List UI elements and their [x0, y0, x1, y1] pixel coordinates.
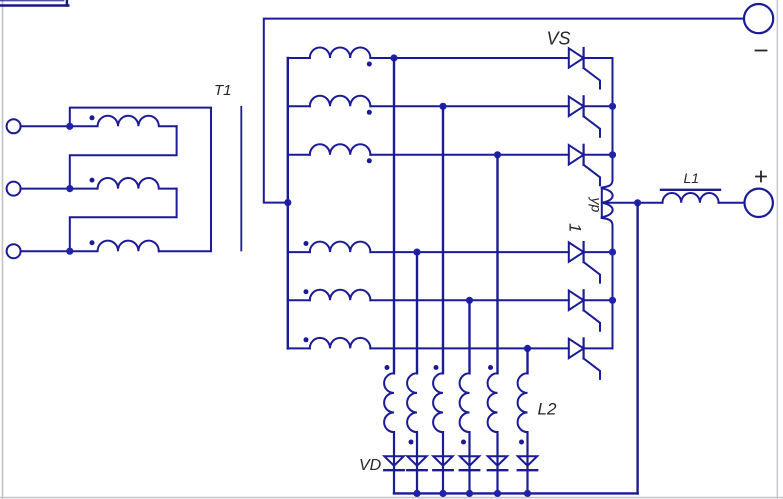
wire tap row 1 down to L2 column: [393, 58, 395, 373]
input terminal A: [7, 119, 21, 133]
interphase reactor lower neck: [602, 218, 613, 226]
polarity dot primary 1: [90, 115, 95, 120]
wire winding 1 to thyristor anode: [370, 57, 568, 59]
node diode VD5 on cathode bus: [494, 490, 501, 497]
node diode VD3 on cathode bus: [439, 490, 446, 497]
thyristor VS2: [569, 96, 600, 137]
svg-text:VD: VD: [359, 457, 382, 474]
wire tap row 6 down to L2 column: [526, 348, 528, 373]
plus sign: [756, 172, 766, 182]
wire L1 to plus terminal: [719, 202, 745, 204]
reactor L2 winding 1: [384, 373, 394, 432]
drawing frame bottom border: [0, 497, 783, 499]
input terminal C: [7, 244, 21, 258]
wire L2-1 to diode VD1: [393, 432, 395, 493]
interphase reactor center bar: [601, 188, 603, 219]
transformer T1 primary winding 3: [70, 241, 159, 252]
polarity dot L2-2: [409, 440, 414, 445]
svg-text:VS: VS: [547, 29, 571, 49]
transformer T1 primary winding 2: [70, 178, 177, 189]
wire thyristor VS2 cathode to bus: [584, 105, 613, 107]
node phase C: [66, 248, 73, 255]
transformer T1 secondary winding 2: [310, 96, 371, 107]
reactor L2 winding 6: [518, 373, 528, 432]
node cathode row 5: [609, 297, 616, 304]
wire L2-5 to diode VD5: [496, 432, 498, 493]
polarity dot secondary 6: [304, 337, 309, 342]
transformer T1 secondary winding 5: [310, 290, 371, 301]
wire secondary winding 3 row: [288, 154, 310, 156]
wire L2-3 to diode VD3: [442, 432, 444, 493]
polarity dot primary 3: [90, 240, 95, 245]
input terminal B: [7, 182, 21, 196]
node phase B: [66, 185, 73, 192]
interphase reactor winding upper half: [602, 188, 613, 202]
polarity dot primary 2: [90, 178, 95, 183]
svg-text:T1: T1: [214, 82, 232, 99]
node diode VD6 on cathode bus: [524, 490, 531, 497]
wire winding 1 return: [70, 126, 177, 188]
polarity dot secondary 1: [367, 62, 372, 67]
thyristor VS4: [569, 242, 600, 283]
polarity dot secondary 3: [367, 158, 372, 163]
transformer T1 primary winding 1: [70, 116, 177, 127]
wire secondary winding 4 row: [288, 251, 310, 253]
transformer T1 secondary winding 4: [310, 242, 371, 253]
polarity dot L2-4: [461, 440, 466, 445]
polarity dot secondary 4: [304, 241, 309, 246]
output terminal minus: [744, 4, 773, 33]
wire secondary winding 1 row: [288, 57, 310, 59]
node tap row 4: [413, 249, 420, 256]
drawing frame right border: [776, 0, 778, 499]
wire thyristor VS4 cathode to bus: [584, 251, 613, 253]
node cathode row 2: [609, 103, 616, 110]
wire secondary winding 6 row: [288, 347, 310, 349]
wire tap row 5 down to L2 column: [468, 300, 470, 373]
node output tap: [634, 199, 641, 206]
thyristor VS1: [569, 48, 600, 89]
node tap row 3: [494, 151, 501, 158]
output terminal plus: [745, 189, 773, 217]
node tap row 2: [439, 103, 446, 110]
wire secondary winding 2 row: [288, 105, 310, 107]
diode VD6: [518, 456, 537, 470]
wire VD return riser: [636, 203, 638, 494]
node tap row 6: [524, 345, 531, 352]
wire thyristor VS1 cathode to bus: [584, 57, 613, 59]
polarity dot L2-6: [519, 440, 524, 445]
wire tap row 3 down to L2 column: [496, 155, 498, 373]
svg-text:L1: L1: [684, 170, 700, 186]
node diode VD4 on cathode bus: [466, 490, 473, 497]
node cathode row 3: [609, 151, 616, 158]
thyristor VS6: [569, 338, 600, 379]
inductor L1: [663, 193, 719, 203]
wire terminal C: [21, 250, 70, 252]
diode VD1: [384, 456, 403, 470]
polarity dot L2-1: [385, 365, 390, 370]
interphase reactor upper neck: [602, 180, 613, 188]
wire winding 4 to thyristor anode: [370, 251, 568, 253]
cathode bus upper group: [612, 58, 614, 180]
wire reactor tap to output: [602, 202, 662, 204]
wire tap row 2 down to L2 column: [442, 106, 444, 373]
svg-text:ур: ур: [589, 197, 605, 213]
polarity dot L2-5: [488, 365, 493, 370]
wire tap row 4 down to L2 column: [416, 252, 418, 373]
polarity dot L2-3: [434, 365, 439, 370]
diode VD2: [407, 456, 426, 470]
minus sign: [756, 50, 767, 52]
wire thyristor VS3 cathode to bus: [584, 154, 613, 156]
wire winding 2 to thyristor anode: [370, 105, 568, 107]
interphase reactor winding lower half: [602, 203, 613, 217]
wire winding 5 to thyristor anode: [370, 299, 568, 301]
node cathode row 4: [609, 249, 616, 256]
wire L2-6 to diode VD6: [526, 432, 528, 493]
svg-text:L2: L2: [538, 400, 557, 419]
node tap row 1: [390, 54, 397, 61]
inductor L1 core bar: [661, 189, 720, 191]
wire VD cathode bus: [394, 492, 638, 494]
wire thyristor VS6 cathode to bus: [584, 347, 613, 349]
node star point: [284, 199, 291, 206]
svg-text:1: 1: [566, 223, 585, 232]
wire winding 2 return: [70, 189, 177, 252]
diode VD3: [433, 456, 452, 470]
polarity dot secondary 2: [367, 110, 372, 115]
wire delta top loop: [70, 108, 211, 252]
wire terminal B: [21, 188, 70, 190]
thyristor VS3: [569, 145, 600, 186]
transformer T1 secondary winding 1: [310, 47, 371, 58]
wire secondary winding 5 row: [288, 299, 310, 301]
transformer T1 secondary winding 6: [310, 338, 371, 348]
transformer T1 secondary winding 3: [310, 144, 371, 155]
reactor L2 winding 2: [407, 373, 417, 432]
wire winding 6 to thyristor anode: [370, 347, 568, 349]
thyristor VS5: [569, 290, 600, 331]
wire negative rail: [264, 19, 744, 203]
reactor L2 winding 3: [433, 373, 443, 432]
drawing frame left border: [2, 0, 4, 499]
node phase A: [66, 123, 73, 130]
reactor L2 winding 5: [488, 373, 498, 432]
wire thyristor VS5 cathode to bus: [584, 299, 613, 301]
wire L2-4 to diode VD4: [468, 432, 470, 493]
polarity dot secondary 5: [304, 289, 309, 294]
transformer T1 core bar: [240, 107, 242, 251]
wire winding 3 to thyristor anode: [370, 154, 568, 156]
title-box corner at top-left: [0, 0, 68, 6]
reactor L2 winding 4: [460, 373, 470, 432]
diode VD4: [460, 456, 479, 470]
diode VD5: [488, 456, 507, 470]
secondary star bus: [287, 58, 289, 348]
wire L2-2 to diode VD2: [416, 432, 418, 493]
wire terminal A: [21, 125, 70, 127]
node tap row 5: [466, 297, 473, 304]
cathode bus lower group: [612, 226, 614, 349]
node diode VD2 on cathode bus: [413, 490, 420, 497]
